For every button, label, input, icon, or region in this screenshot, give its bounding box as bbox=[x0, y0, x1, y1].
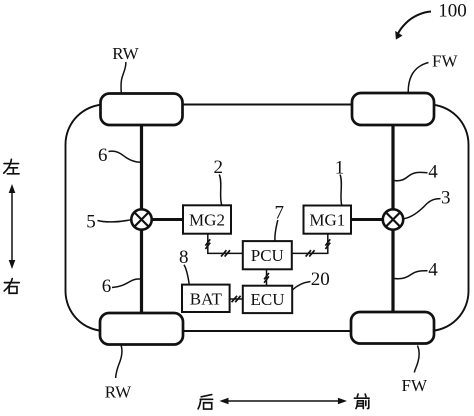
svg-text:2: 2 bbox=[214, 157, 224, 178]
svg-text:7: 7 bbox=[275, 203, 285, 224]
svg-text:8: 8 bbox=[179, 247, 189, 268]
svg-text:1: 1 bbox=[335, 158, 345, 179]
svg-text:MG2: MG2 bbox=[189, 210, 225, 229]
svg-text:3: 3 bbox=[441, 188, 451, 209]
svg-text:FW: FW bbox=[402, 376, 428, 395]
svg-text:5: 5 bbox=[86, 212, 96, 233]
svg-text:20: 20 bbox=[311, 269, 330, 290]
svg-text:6: 6 bbox=[98, 145, 108, 166]
svg-text:RW: RW bbox=[105, 382, 132, 401]
svg-text:RW: RW bbox=[112, 44, 139, 63]
svg-text:FW: FW bbox=[432, 52, 458, 71]
svg-text:BAT: BAT bbox=[190, 289, 223, 308]
svg-text:MG1: MG1 bbox=[309, 210, 345, 229]
svg-text:100: 100 bbox=[438, 1, 467, 22]
svg-text:4: 4 bbox=[428, 260, 438, 281]
svg-text:6: 6 bbox=[102, 276, 112, 297]
svg-text:PCU: PCU bbox=[251, 246, 284, 265]
svg-text:4: 4 bbox=[428, 162, 438, 183]
svg-text:ECU: ECU bbox=[251, 290, 285, 309]
